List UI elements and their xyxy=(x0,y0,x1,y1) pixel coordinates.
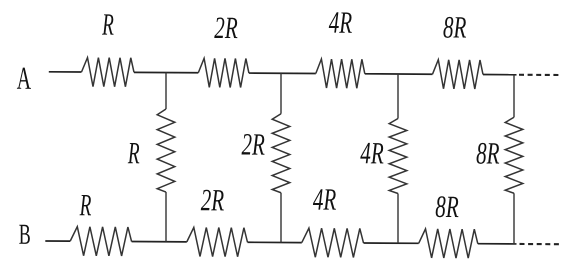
resistor 4R vertical xyxy=(389,118,407,193)
label 8R bottom xyxy=(435,189,458,224)
resistor 8R top xyxy=(433,60,484,89)
wire top rail seg2 xyxy=(134,71,198,73)
svg-text:2R: 2R xyxy=(201,182,224,217)
svg-text:2R: 2R xyxy=(214,10,237,45)
resistor 2R top xyxy=(198,58,249,87)
wire vertical lead 4R bottom xyxy=(397,194,399,244)
wire vertical lead 2R top xyxy=(280,73,282,114)
wire vertical lead 2R bottom xyxy=(280,193,282,243)
svg-text:B: B xyxy=(19,220,31,251)
label 4R vertical xyxy=(360,135,383,170)
svg-text:2R: 2R xyxy=(241,126,264,161)
svg-text:8R: 8R xyxy=(435,189,458,224)
label 8R top xyxy=(443,9,466,44)
label R vertical xyxy=(127,136,140,171)
wire top rail seg1 xyxy=(49,71,82,73)
label 2R top xyxy=(214,10,237,45)
resistor R bottom xyxy=(70,227,131,256)
wire bottom rail dashed continuation xyxy=(520,243,561,245)
label 2R vertical xyxy=(241,126,264,161)
resistor R top (label R) xyxy=(82,58,135,87)
resistor 8R vertical xyxy=(505,117,523,193)
wire top rail seg3 xyxy=(249,72,316,74)
svg-text:4R: 4R xyxy=(313,181,336,216)
wire bottom rail seg3 xyxy=(248,241,302,243)
label R top xyxy=(101,7,114,42)
wire vertical lead R bottom xyxy=(165,192,167,242)
resistor R vertical xyxy=(157,109,175,192)
svg-text:A: A xyxy=(17,60,32,96)
wire vertical lead 4R top xyxy=(397,74,399,119)
node B xyxy=(19,220,31,251)
wire top rail dashed continuation xyxy=(519,74,560,76)
wire bottom rail seg1 xyxy=(45,240,70,242)
resistor 2R bottom xyxy=(187,227,248,256)
wire bottom rail seg2 xyxy=(132,241,187,243)
wire vertical lead R top xyxy=(165,73,167,110)
label 4R bottom xyxy=(313,181,336,216)
wire top rail seg4 xyxy=(365,73,433,75)
svg-text:8R: 8R xyxy=(443,9,466,44)
svg-text:8R: 8R xyxy=(476,135,499,170)
wire vertical lead 8R top xyxy=(513,75,515,118)
resistor 8R bottom xyxy=(419,229,478,258)
label 4R top xyxy=(329,5,352,40)
resistor 4R bottom xyxy=(302,228,364,257)
label 8R vertical xyxy=(476,135,499,170)
resistor 2R vertical xyxy=(272,114,290,193)
wire bottom rail seg5 xyxy=(478,243,517,245)
svg-text:R: R xyxy=(127,136,140,171)
wire vertical lead 8R bottom xyxy=(513,193,515,244)
wire top rail seg5 xyxy=(483,74,517,76)
svg-text:4R: 4R xyxy=(360,135,383,170)
label R bottom xyxy=(79,188,92,223)
wire bottom rail seg4 xyxy=(364,242,419,244)
svg-text:R: R xyxy=(101,7,114,42)
node A xyxy=(17,60,32,96)
resistor 4R top xyxy=(316,59,365,88)
label 2R bottom xyxy=(201,182,224,217)
svg-text:4R: 4R xyxy=(329,5,352,40)
svg-text:R: R xyxy=(79,188,92,223)
